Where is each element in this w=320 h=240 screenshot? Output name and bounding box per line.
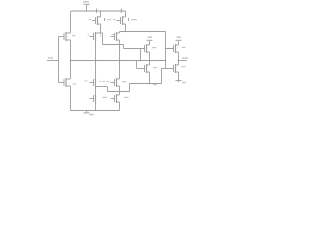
bulk stub M4 to rail [120, 9, 122, 14]
ground flag gnd! [84, 111, 94, 116]
node vout [178, 60, 180, 62]
node right column tail [165, 60, 167, 62]
wire M7 source down [95, 87, 97, 94]
wire M4 source to rail [125, 11, 127, 17]
wire M1 drain jog to M5 gate column [96, 33, 124, 45]
node vdd stem junction [86, 10, 87, 11]
transistor M9 [137, 64, 150, 73]
wire M14 drain up [119, 92, 121, 96]
node tee tail [140, 60, 142, 62]
wire M2 drain up to M4 net [119, 32, 121, 34]
node M9 source [149, 83, 151, 85]
wire M3 source to rail [100, 11, 102, 17]
wire M12 source down to mirror net [119, 86, 121, 92]
label M7 right [99, 80, 102, 82]
node tail left tee [70, 60, 72, 62]
node M6 gate tee [165, 48, 166, 49]
wire M11 lead extensions [69, 78, 71, 80]
label M3 left mark [89, 19, 92, 20]
transistor M1 [90, 32, 96, 41]
label M12 left mark [107, 81, 110, 82]
label net under M9 [153, 84, 157, 85]
wire M10 source down [178, 72, 180, 80]
wire M4 drain net to right column [120, 31, 166, 33]
wire M8 lead extensions [69, 32, 71, 34]
node M4 drain [125, 31, 126, 32]
wire output stub [179, 60, 188, 62]
label M1 right tick [99, 34, 102, 36]
label M7 left mark [85, 81, 88, 82]
node M3 drain junction [100, 32, 101, 33]
transistor M6 [167, 44, 179, 53]
label vin [48, 57, 53, 59]
node rail M3 [100, 10, 101, 11]
wire M10 gate net [162, 68, 174, 70]
wire M4 drain down [125, 24, 127, 32]
wire input lead vin [47, 60, 59, 62]
transistor M5 [139, 44, 150, 53]
label M14 right [124, 97, 129, 98]
bias flag vb2 [176, 37, 182, 46]
node M7 source branch [95, 86, 96, 87]
label M5 [152, 47, 157, 48]
wire VDD rail [71, 10, 126, 12]
label M10 [182, 66, 186, 67]
bias flag vb1 [147, 37, 153, 46]
wire right column vertical [165, 32, 167, 69]
label M1 left mark [88, 35, 90, 36]
wire M11 source to ground rail [70, 86, 72, 111]
transistor M7 [90, 78, 96, 87]
transistor M4 [117, 16, 126, 25]
wire ground rail [71, 110, 120, 112]
wire input gate column vertical [58, 37, 60, 83]
wire M9 drain up [149, 61, 151, 66]
node M2 source on tail net [119, 60, 121, 62]
transistor M12 [111, 78, 120, 87]
wire M5 source down to tail net [149, 52, 151, 61]
wire M3 drain down [100, 24, 102, 33]
label M4 left mark [113, 19, 116, 20]
node M2 source jog junction [119, 44, 120, 45]
label M6 [182, 47, 186, 48]
node M12 source [119, 91, 120, 92]
wire M13 source to ground rail [95, 103, 97, 111]
node M1 source on tail net [95, 60, 97, 62]
transistor M14 [111, 94, 120, 103]
wire jog down to M5 gate net [124, 45, 145, 49]
ground flag right gnd! [176, 81, 186, 84]
power flag vdd! [83, 1, 90, 11]
transistor M13 [90, 94, 96, 103]
transistor M2 [111, 32, 120, 41]
label M11 [73, 84, 77, 85]
wire bottom mirror net [130, 69, 162, 92]
label M4 [129, 18, 138, 21]
label M9 [153, 67, 157, 68]
transistor M10 [169, 64, 179, 73]
wire M6 gate from right column [166, 48, 174, 50]
label M13 right [103, 97, 108, 98]
label M12 right [122, 81, 127, 82]
wire M14 source to ground rail [119, 102, 121, 111]
label M8 [72, 35, 76, 36]
wire left column rail drop [70, 11, 72, 33]
bulk stub M3 to rail [96, 9, 98, 14]
wire lower mirror net to M7 source [96, 87, 130, 92]
wire M9 source down to mirror net [149, 72, 151, 84]
label M3 [105, 18, 112, 21]
transistor M11 [59, 78, 70, 87]
node M5 source [149, 60, 151, 62]
wire tail net horizontal [71, 60, 166, 62]
wire M1 source column down [95, 41, 97, 78]
wire M6 source down to output node [178, 52, 180, 65]
label vout [182, 57, 188, 59]
wire M5 gate tee to tail net [140, 49, 142, 61]
wire M9 gate jog from tail net [136, 61, 138, 69]
transistor M3 [92, 16, 101, 25]
wire M2 source column down [119, 40, 121, 79]
wire left column M8 source down [70, 40, 72, 79]
transistor M8 [59, 32, 70, 41]
label M2 net mark [112, 34, 115, 35]
